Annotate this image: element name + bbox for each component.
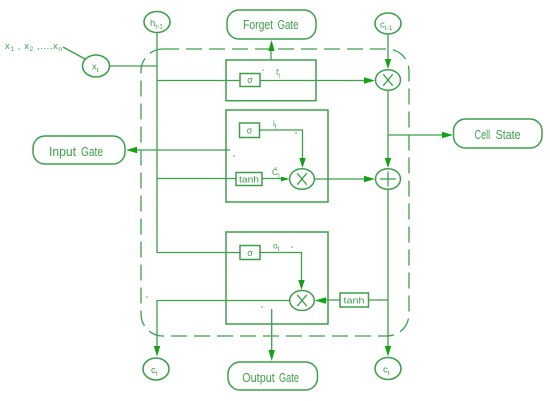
input gate block rectangle: [226, 110, 328, 202]
svg-text:it: it: [273, 118, 277, 131]
wire from xn label to xt node: [63, 47, 85, 59]
multiply node X3: [290, 291, 315, 311]
svg-text:ft: ft: [276, 67, 280, 80]
plus node: [376, 169, 401, 190]
svg-text:C̃t: C̃t: [272, 167, 280, 180]
wire branch to Cell State with arrowhead: [388, 132, 453, 138]
svg-text:σ: σ: [247, 248, 253, 258]
svg-text:σ: σ: [247, 75, 253, 85]
wire to Input Gate with arrowhead: [126, 147, 230, 153]
arrow from forget block up to Forget Gate label: [268, 40, 274, 60]
wire down to Output Gate with arrowhead: [269, 309, 275, 361]
svg-text:σ: σ: [247, 126, 253, 136]
wire X1 down to plus node: [385, 90, 391, 168]
svg-text:tanh: tanh: [239, 175, 259, 186]
svg-text:ct: ct: [151, 365, 158, 378]
wire forget-gate row from trunk to sigma: [157, 80, 240, 82]
svg-text:ct: ct: [383, 365, 390, 378]
wire tanh2 to X3 with arrowhead: [315, 297, 340, 303]
sigma box (output): [240, 246, 260, 260]
svg-text:Forget: Forget: [243, 18, 273, 32]
node xt: [83, 55, 110, 77]
svg-text:ht-1: ht-1: [150, 18, 163, 31]
wire sigma-i right and down to X2 with arrowhead: [260, 130, 306, 168]
wire X2 to plus node with arrowhead: [315, 176, 376, 182]
svg-text:Cell: Cell: [475, 128, 491, 142]
multiply node X1: [376, 70, 401, 91]
wire trunk turn to output sigma: [157, 252, 240, 254]
wire c_t-1 down to X1 with arrowhead: [385, 34, 391, 69]
Input Gate label box: [33, 136, 125, 164]
wire sigma-o right and down to X3 with arrowhead: [260, 253, 305, 291]
wire X3 output to c_t left with arrowhead: [154, 301, 290, 357]
node c_t-1: [375, 13, 401, 34]
sigma box (forget): [240, 74, 260, 87]
svg-text:Gate: Gate: [279, 371, 299, 385]
svg-text:ct-1: ct-1: [380, 20, 393, 33]
forget gate block rectangle: [226, 60, 316, 101]
Cell State label box: [454, 119, 543, 148]
svg-text:State: State: [496, 128, 521, 142]
svg-text:Input: Input: [49, 145, 77, 159]
wire tanh1 to X2: [262, 178, 282, 180]
node c_t left: [143, 358, 169, 380]
wire xt to h line: [110, 65, 158, 67]
stray dot specks: [146, 69, 297, 308]
node h_t-1: [144, 12, 170, 33]
svg-text:x1 , x2 ,....xn: x1 , x2 ,....xn: [5, 41, 62, 53]
svg-text:Output: Output: [242, 371, 275, 385]
wire plus node down to c_t with arrowhead: [385, 189, 391, 356]
Forget Gate label box: [227, 10, 316, 39]
LSTM cell dashed boundary: [141, 49, 409, 336]
Output Gate label box: [228, 362, 318, 390]
svg-text:Gate: Gate: [278, 18, 299, 32]
tanh box (output): [340, 293, 369, 307]
output gate block rectangle: [226, 232, 328, 324]
svg-text:tanh: tanh: [344, 296, 365, 307]
wire vertical trunk to tanh2: [369, 299, 389, 301]
wire h_t-1 vertical trunk down: [156, 33, 158, 254]
tanh box (input): [236, 173, 262, 186]
wire sigma-f to multiply X1 with arrowhead: [260, 77, 375, 83]
svg-text:Gate: Gate: [81, 145, 103, 159]
sigma box (input): [240, 123, 260, 138]
wire trunk to tanh1: [157, 178, 236, 180]
svg-text:xt: xt: [92, 62, 99, 75]
svg-text:ot: ot: [273, 241, 280, 254]
node c_t right: [375, 358, 401, 380]
multiply node X2: [290, 169, 315, 190]
